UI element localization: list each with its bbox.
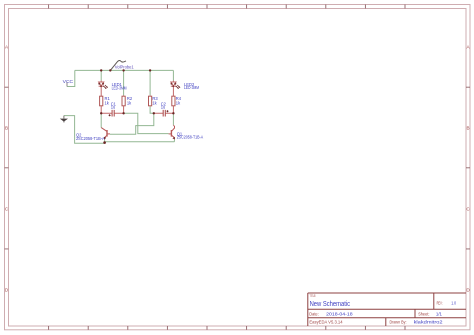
svg-text:Date:: Date: (309, 311, 318, 316)
svg-text:Drawn By:: Drawn By: (390, 320, 407, 325)
svg-text:1u: 1u (161, 105, 166, 110)
svg-text:TITLE:: TITLE: (310, 294, 317, 298)
svg-text:2SC2058-T1B-A: 2SC2058-T1B-A (177, 135, 204, 140)
svg-text:klakdmitro2: klakdmitro2 (414, 320, 444, 325)
svg-text:1/1: 1/1 (436, 311, 443, 316)
svg-text:Sheet:: Sheet: (418, 311, 429, 316)
svg-text:LED-3MM: LED-3MM (184, 85, 199, 90)
svg-text:1.0: 1.0 (451, 301, 456, 306)
svg-text:LED-3MM: LED-3MM (112, 85, 127, 90)
svg-text:2018-04-18: 2018-04-18 (326, 311, 353, 316)
svg-text:B: B (5, 125, 8, 130)
svg-text:1u: 1u (111, 105, 116, 110)
svg-text:New Schematic: New Schematic (310, 301, 351, 308)
svg-text:EasyEDA V5.3.14: EasyEDA V5.3.14 (309, 320, 343, 325)
svg-text:2SC2058-T1B-A: 2SC2058-T1B-A (76, 136, 105, 141)
svg-text:REV:: REV: (437, 301, 443, 306)
svg-text:VolProbe1: VolProbe1 (115, 65, 135, 70)
svg-text:B: B (466, 125, 469, 130)
svg-text:VCC: VCC (63, 79, 74, 84)
